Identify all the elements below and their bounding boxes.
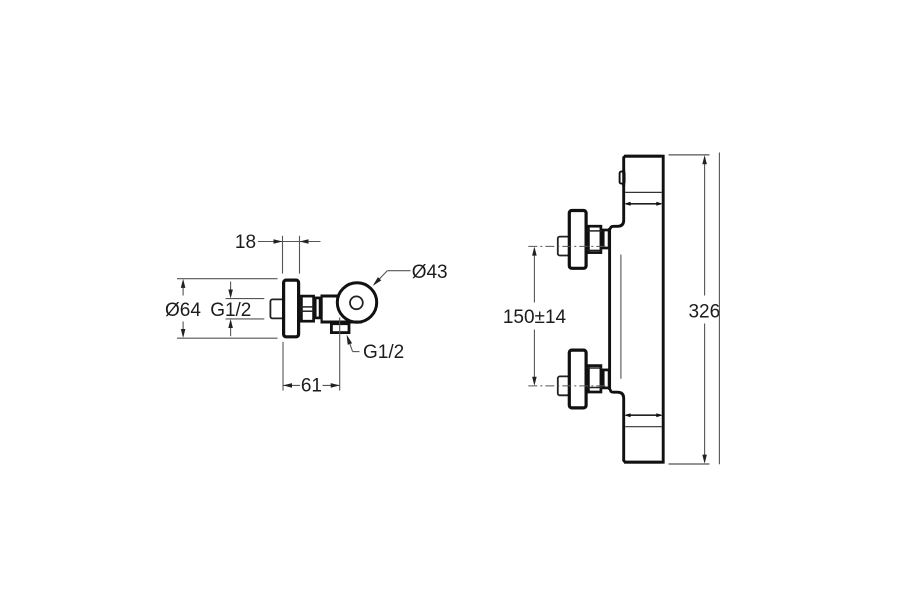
svg-text:150±14: 150±14 (503, 307, 567, 328)
dimension G1/2 extension lines (left view inlet) (226, 299, 265, 319)
union nut (left view) (300, 296, 315, 321)
outlet port G1/2 (left view) (331, 324, 349, 333)
label Ø43 leader (373, 271, 411, 286)
dimension 326 extension lines (669, 155, 710, 464)
bottom union centerline (528, 385, 608, 387)
svg-text:G1/2: G1/2 (210, 300, 251, 321)
svg-text:Ø64: Ø64 (165, 300, 201, 321)
wall flange (left view) (284, 280, 299, 337)
dimension 18 extension lines (283, 236, 300, 274)
seam line near bar top (625, 191, 662, 193)
dimension 61 extension lines (283, 318, 340, 391)
valve body circle, diameter 43 (left view) (337, 283, 376, 322)
top union: wall stub (558, 237, 569, 256)
mounting clip notch on bar (620, 170, 625, 187)
page rule line right of 326 (718, 153, 720, 465)
bottom union: washer (603, 370, 609, 388)
body width double arrow (top) (624, 202, 662, 206)
bottom union: flange (569, 350, 586, 408)
washer (left view) (315, 298, 320, 318)
label G1/2 outlet leader (347, 335, 360, 352)
dimension G1/2 arrows (228, 282, 233, 337)
body width double arrow (bottom) (624, 413, 662, 417)
seam line near bar bottom (625, 426, 662, 428)
bottom union: nut (587, 366, 602, 392)
handle hub inner circle (left view) (350, 296, 363, 309)
top union: flange (569, 211, 586, 269)
svg-text:326: 326 (688, 301, 720, 322)
dimension Ø64 arrows (181, 279, 186, 338)
svg-text:G1/2: G1/2 (363, 342, 404, 363)
top union centerline (528, 245, 608, 247)
top union: washer (603, 230, 609, 248)
dimension 61 line and arrows (283, 383, 340, 388)
wall pipe stub (left view) (270, 299, 284, 318)
mixer bar outline (610, 155, 664, 464)
dimension 326 line and arrows (702, 155, 707, 463)
top union: nut (587, 226, 602, 252)
svg-text:18: 18 (235, 232, 256, 253)
valve body (left view) (321, 296, 363, 322)
dimension 18 line and arrows (258, 239, 321, 244)
svg-text:61: 61 (301, 376, 322, 397)
inner contour line between unions (620, 255, 622, 379)
dimension Ø64 extension lines (177, 279, 278, 339)
bottom union: wall stub (558, 376, 569, 395)
svg-text:Ø43: Ø43 (412, 262, 448, 283)
dimension 150±14 line and arrows (532, 247, 537, 386)
